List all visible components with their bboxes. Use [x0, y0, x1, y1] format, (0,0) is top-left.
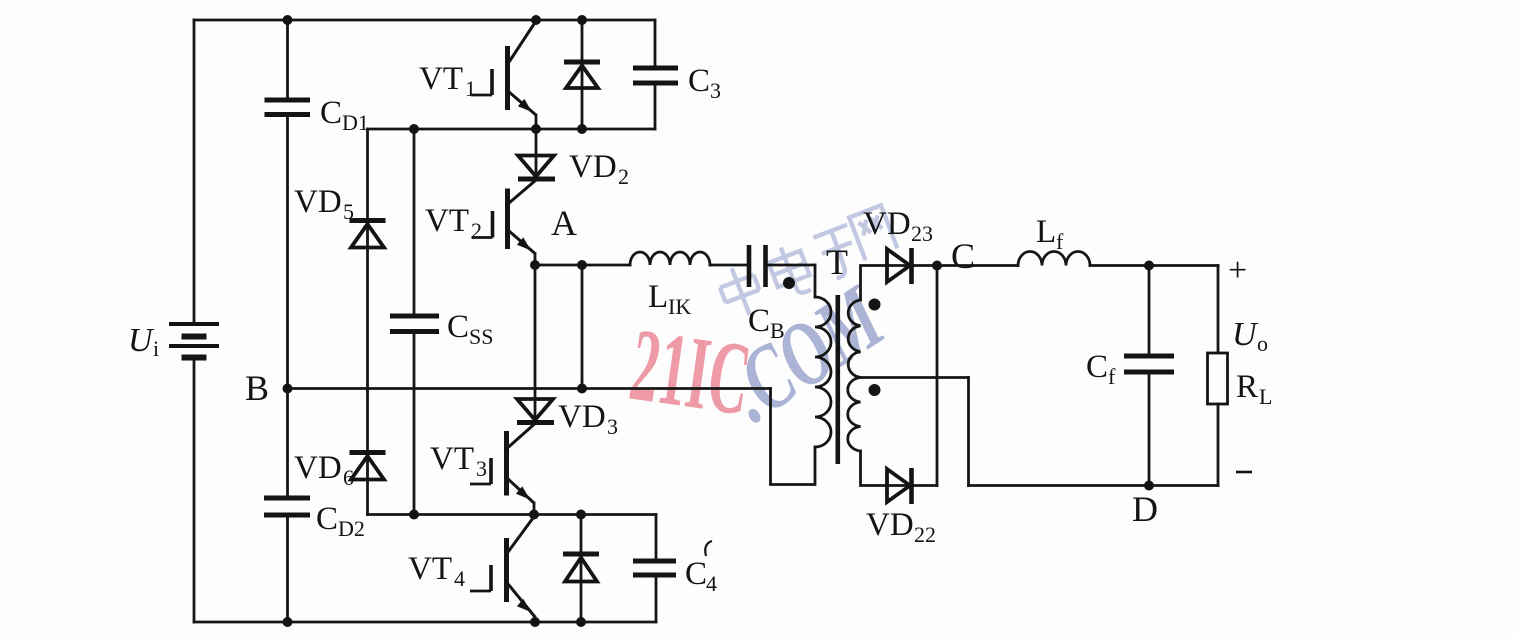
wire top rail: [194, 19, 655, 22]
wire VD2 stub: [535, 129, 538, 180]
svg-text:R: R: [1236, 369, 1258, 405]
svg-text:A: A: [551, 203, 577, 243]
svg-text:D1: D1: [342, 110, 369, 135]
svg-text:VD: VD: [294, 184, 342, 220]
wire Cf branch: [1148, 266, 1151, 486]
wire VD5-VD6 branch: [366, 129, 369, 515]
wire secondary center tap: [861, 376, 969, 379]
svg-text:5: 5: [343, 199, 354, 224]
diode VD23: [887, 248, 912, 284]
svg-text:3: 3: [607, 414, 618, 439]
node second row junction VT1 emitter: [531, 124, 541, 134]
svg-text:L: L: [648, 279, 668, 315]
node B junction: [283, 384, 293, 394]
polarity dot secondary lower: [869, 384, 881, 396]
node A junction: [530, 260, 540, 270]
node CD2 row junction CSS: [409, 510, 419, 520]
svg-text:2: 2: [471, 218, 482, 243]
transformer T secondary lower winding: [848, 378, 861, 452]
wire C row: [937, 264, 1218, 267]
node CD2 row junction D4: [576, 510, 586, 520]
svg-text:B: B: [245, 368, 269, 408]
diode D1 freewheel over VT1: [564, 62, 600, 88]
wire right rail: [1217, 266, 1220, 486]
svg-text:C: C: [316, 501, 338, 537]
node top rail junction at D1: [577, 15, 587, 25]
svg-text:1: 1: [465, 76, 476, 101]
wire A row: [535, 264, 815, 267]
diode VD6: [350, 453, 386, 480]
transistor VT1: [471, 21, 536, 115]
svg-text:C: C: [1086, 349, 1108, 385]
svg-text:T: T: [826, 242, 848, 282]
node top rail junction at CD1: [283, 15, 293, 25]
wire left rail upper: [193, 20, 196, 324]
svg-text:f: f: [1108, 364, 1116, 389]
diode VD22: [887, 468, 912, 504]
svg-text:L: L: [1036, 214, 1056, 250]
transistor VT2: [472, 180, 537, 254]
wire second row: [368, 128, 655, 131]
capacitor CSS: [390, 316, 439, 332]
minus sign output: [1236, 471, 1252, 474]
wire C4 branch: [655, 515, 658, 623]
node A row junction right: [577, 260, 587, 270]
svg-text:VT: VT: [408, 551, 452, 587]
polarity dot secondary upper: [869, 299, 881, 311]
node B row junction right: [577, 384, 587, 394]
svg-text:VD: VD: [558, 399, 606, 435]
svg-text:C: C: [688, 63, 710, 99]
diode VD5: [350, 221, 386, 248]
svg-text:2: 2: [618, 164, 629, 189]
wire VD22 cathode riser: [936, 266, 939, 486]
node D junction: [1144, 481, 1154, 491]
svg-text:C: C: [951, 236, 975, 276]
svg-text:22: 22: [914, 522, 936, 547]
wire VT1 emitter stub: [535, 115, 538, 129]
wire primary top lead: [814, 265, 817, 297]
wire B row: [288, 387, 771, 390]
resistor RL: [1208, 353, 1228, 404]
wire left rail lower: [193, 358, 196, 623]
diode VD3: [517, 399, 554, 423]
transformer T primary winding: [815, 297, 831, 447]
svg-text:U: U: [128, 322, 155, 359]
node second row junction CSS: [409, 124, 419, 134]
wire diode branch over VT1: [581, 20, 584, 129]
capacitor CD1: [265, 100, 311, 115]
svg-text:VD: VD: [569, 149, 617, 185]
diode VD2: [518, 156, 555, 180]
svg-text:D: D: [1132, 489, 1158, 529]
svg-text:L: L: [1259, 384, 1272, 409]
svg-text:VT: VT: [419, 61, 463, 97]
svg-text:SS: SS: [469, 324, 493, 349]
wire center tap down: [967, 378, 970, 486]
diode D4 freewheel over VT4: [563, 554, 599, 582]
wire CSS branch: [413, 129, 416, 515]
capacitor C4: [633, 561, 676, 575]
svg-text:B: B: [770, 318, 785, 343]
svg-text:i: i: [153, 336, 159, 361]
svg-text:IK: IK: [668, 294, 691, 319]
svg-text:D2: D2: [338, 516, 365, 541]
wire bottom rail: [194, 621, 656, 624]
wire VT4 emitter stub: [534, 617, 537, 622]
svg-text:VD: VD: [294, 450, 342, 486]
transformer T core: [836, 295, 841, 464]
capacitor C3: [633, 68, 678, 83]
svg-text:C: C: [685, 556, 707, 592]
wire C3 branch: [654, 20, 657, 129]
svg-text:C: C: [447, 309, 469, 345]
wire D row: [969, 484, 1219, 487]
node C junction: [932, 261, 942, 271]
stray mark above C4: [705, 541, 712, 556]
inductor Lf: [1018, 252, 1090, 266]
wire VD3 branch: [534, 265, 537, 423]
wire VT2 emitter stub: [534, 254, 537, 266]
node Cf top junction: [1144, 261, 1154, 271]
svg-text:VT: VT: [430, 441, 474, 477]
transistor VT3: [470, 424, 535, 504]
svg-text:VD: VD: [863, 206, 911, 242]
svg-text:3: 3: [476, 456, 487, 481]
capacitor CB: [749, 245, 766, 287]
wire primary return loop: [771, 389, 816, 485]
svg-text:VT: VT: [425, 203, 469, 239]
node CD2 row junction VT3 emitter: [529, 510, 539, 520]
node bottom rail junction VT4: [530, 617, 540, 627]
wire VT3 emitter stub: [533, 503, 536, 515]
wire CD2 row: [368, 513, 657, 516]
svg-text:4: 4: [454, 566, 465, 591]
transistor VT4: [470, 516, 535, 617]
svg-text:23: 23: [911, 221, 933, 246]
battery Ui: [169, 324, 219, 358]
wire diode branch over VT4: [580, 515, 583, 623]
node second row junction D1: [577, 124, 587, 134]
node bottom rail junction D4: [576, 617, 586, 627]
svg-text:U: U: [1232, 316, 1259, 353]
svg-text:C: C: [320, 95, 342, 131]
capacitor CD2: [264, 498, 310, 515]
svg-text:VD: VD: [866, 507, 914, 543]
inductor LIK: [630, 252, 710, 265]
polarity dot primary: [783, 277, 795, 289]
svg-text:4: 4: [706, 571, 717, 596]
wire A-to-B vertical: [581, 265, 584, 389]
svg-text:C: C: [748, 303, 770, 339]
svg-text:f: f: [1056, 229, 1064, 254]
svg-text:3: 3: [710, 78, 721, 103]
svg-text:+: +: [1228, 252, 1247, 289]
svg-text:o: o: [1257, 331, 1268, 356]
capacitor Cf: [1124, 356, 1174, 372]
wire CD1-CD2 branch: [286, 20, 289, 622]
wire secondary bottom lead: [861, 451, 938, 486]
svg-text:6: 6: [343, 465, 354, 490]
node top rail junction at VT1: [531, 15, 541, 25]
node bottom rail junction CD2: [283, 617, 293, 627]
transformer T secondary upper winding: [848, 300, 860, 377]
wire secondary top lead: [861, 266, 938, 301]
watermark 21IC: [624, 205, 903, 441]
